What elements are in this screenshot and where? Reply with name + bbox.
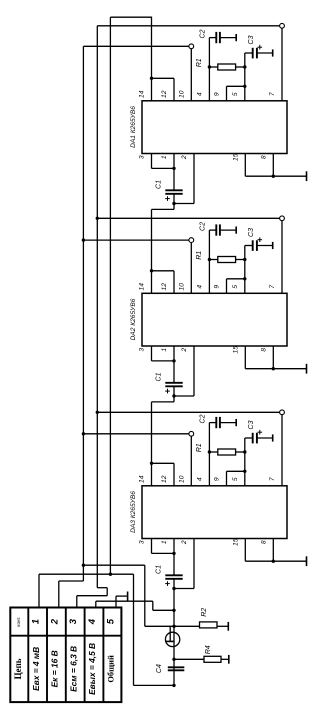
node pin5/pin9 junction stage 1: [243, 85, 246, 88]
ground bar at C3 stage 1: [272, 49, 274, 56]
wire output chain vertical (stage 3 output to C4): [173, 589, 175, 686]
wire pin 4 stub stage 1: [208, 67, 210, 101]
capacitor C1 (polarized) stage 1: [165, 189, 182, 191]
node Eвых branch: [172, 609, 175, 612]
svg-text:1: 1: [161, 348, 168, 352]
wire net Eк to pin 10 stage 1 (from bus corner): [83, 45, 188, 47]
node R1 right stage 3: [243, 450, 246, 453]
capacitor C1 (polarized) stage 2: [165, 382, 182, 384]
wire pin 12 stub stage 3: [173, 463, 175, 486]
capacitor C3 (polarized) stage 1: [252, 48, 254, 59]
wire pin 15 stub stage 1: [244, 154, 246, 177]
node pin 8 junction stage 2: [272, 367, 275, 370]
wire C2 right lead stage 3: [220, 422, 236, 424]
wire C3 right lead stage 1: [257, 52, 273, 54]
wire net Eсм: top jog from bus to pin 14 (stage 1): [110, 16, 151, 18]
svg-text:15: 15: [233, 538, 240, 546]
svg-text:R1: R1: [196, 58, 203, 67]
op-amp IC U1 box (DA1 К265УВ6): [142, 101, 287, 154]
wire pin 4 stub stage 3: [208, 452, 210, 486]
ground bar at R4: [228, 655, 230, 664]
node R1 left stage 3: [208, 450, 211, 453]
svg-text:C4: C4: [156, 664, 163, 673]
svg-text:10: 10: [179, 475, 186, 483]
wire net Eвх horizontal (connector pin 1 to C4): [39, 573, 134, 575]
wire C3 right lead stage 2: [257, 245, 273, 247]
connector table column line 3: [65, 608, 67, 703]
wire pin 12 stub stage 1: [173, 78, 175, 101]
svg-text:15: 15: [233, 346, 240, 354]
wire connector pin 5 to chassis: [115, 596, 117, 607]
terminal circle at pin 7 corner stage 2: [280, 216, 285, 221]
node junction pin14/pin12 stage 1: [150, 77, 153, 80]
wire R1 right lead stage 1: [236, 66, 245, 68]
op-amp IC U3 box (DA3 К265УВ6): [142, 486, 287, 539]
wire C3 left lead stage 2: [245, 245, 253, 247]
svg-text:DA1 К265УВ6: DA1 К265УВ6: [130, 106, 137, 148]
wire pin 15 stub stage 2: [244, 346, 246, 369]
wire pin 1 stub stage 3: [173, 539, 175, 576]
wire net Eк to pin 10 stage 3: [83, 433, 188, 435]
svg-text:Eк = 16 В: Eк = 16 В: [50, 650, 60, 687]
wire pin 1 stub stage 2: [173, 346, 175, 383]
plus sign of C3 stage 1: [258, 46, 263, 48]
node pin1/pin3 junction stage 2: [172, 359, 175, 362]
svg-text:5: 5: [232, 92, 239, 96]
wire C1 node to pin 2 stage 1: [174, 203, 194, 205]
svg-text:C2: C2: [200, 29, 207, 38]
node C1 bottom stage 1: [172, 202, 175, 205]
wire pin 9 stub stage 3: [226, 471, 228, 486]
resistor R1 stage 3: [218, 449, 236, 455]
svg-text:2: 2: [181, 348, 188, 353]
svg-text:конт.: конт.: [16, 616, 21, 626]
wire C1 node to pin 2 stage 2: [174, 395, 194, 397]
node C1 bottom stage 3: [172, 587, 175, 590]
wire pin 10 stub stage 3: [190, 436, 192, 485]
svg-text:9: 9: [214, 285, 221, 289]
svg-text:4: 4: [197, 92, 204, 96]
svg-text:3: 3: [68, 618, 79, 624]
svg-text:3: 3: [139, 540, 146, 544]
svg-text:C1: C1: [156, 565, 163, 574]
node R4 branch: [172, 658, 175, 661]
svg-text:7: 7: [269, 477, 276, 481]
terminal open circle at pin 10 line stage 3: [189, 431, 194, 436]
svg-text:4: 4: [197, 477, 204, 481]
svg-text:Eсм = 6,3 В: Eсм = 6,3 В: [68, 646, 78, 692]
wire C2 right lead stage 2: [220, 229, 236, 231]
svg-text:1: 1: [31, 619, 42, 624]
resistor R1 stage 1: [218, 64, 236, 70]
ground bar stage 3: [306, 556, 308, 566]
wire C3 branch vertical stage 2: [244, 246, 246, 260]
wire pin 2 stub stage 3: [193, 539, 195, 589]
svg-text:3: 3: [139, 155, 146, 159]
node bus tap supply stage 2: [96, 217, 99, 220]
svg-text:5: 5: [105, 618, 116, 624]
resistor R1 stage 2: [218, 257, 236, 263]
wire net Eсм supply to pin 7 stage 1: [97, 25, 279, 27]
ground bar stage 1: [306, 171, 308, 181]
wire jog pin14 to pin12 stage 2: [152, 270, 175, 272]
svg-text:2: 2: [181, 155, 188, 160]
wire C3 left lead stage 1: [245, 52, 253, 54]
resistor R2: [200, 622, 218, 628]
wire C2 left lead stage 3: [209, 422, 216, 424]
wire pin 3 stub stage 2: [151, 346, 153, 361]
capacitor C4: [168, 666, 185, 668]
bus net Eсм (vertical, to connector pin 3): [96, 26, 98, 588]
wire output staircase stage 2 to stage 3: [173, 396, 175, 402]
svg-text:14: 14: [139, 90, 146, 98]
svg-text:DA3 К265УВ6: DA3 К265УВ6: [130, 491, 137, 533]
svg-text:C3: C3: [248, 35, 255, 44]
wire pin 14 stub stage 2 (from previous stage output): [151, 209, 153, 293]
terminal open circle at pin 10 line stage 2: [189, 238, 194, 243]
wire pin 7 stub stage 3: [281, 415, 283, 486]
svg-text:7: 7: [269, 285, 276, 289]
wire pin 15 stub stage 3: [244, 539, 246, 562]
ground bar at C3 stage 3: [272, 434, 274, 441]
wire net Eвых staircase to connector pin 4: [153, 609, 174, 611]
wire supply to pin 7 stage 2: [97, 217, 279, 219]
svg-text:12: 12: [161, 283, 168, 291]
svg-text:Eвых = 4,5 В: Eвых = 4,5 В: [87, 643, 97, 695]
wire below C1 stage 3: [173, 579, 175, 589]
wire jog pin3 to pin1 stage 2: [152, 360, 175, 362]
node C1 bottom stage 2: [172, 394, 175, 397]
ground bar at R2: [227, 622, 229, 631]
wire pin 5 stub stage 1: [244, 67, 246, 101]
wire pin 5 stub stage 3: [244, 452, 246, 486]
wire pin 8 stub stage 1: [272, 154, 274, 177]
wire jog pin3 to pin1 stage 3: [152, 552, 175, 554]
svg-text:C3: C3: [248, 228, 255, 237]
wire jog pin9 stage 2: [227, 278, 245, 280]
jack contact bar: [166, 640, 175, 642]
svg-text:1: 1: [161, 540, 168, 544]
ground bar at C2 stage 3: [235, 419, 237, 426]
capacitor C2 stage 3: [215, 417, 217, 428]
svg-text:R4: R4: [205, 645, 212, 654]
wire C2 branch vertical stage 3: [208, 423, 210, 452]
node jack/R2 junction: [172, 625, 175, 628]
wire output staircase stage 1 to stage 2: [173, 204, 175, 210]
node bus tap for pin 10 stage 3: [82, 432, 85, 435]
wire pin 5 stub stage 2: [244, 260, 246, 294]
op-amp IC U2 box (DA2 К265УВ6): [142, 293, 287, 346]
svg-text:8: 8: [261, 348, 268, 352]
ground bar stage 2: [306, 364, 308, 374]
plus sign of C3 stage 3: [258, 431, 263, 433]
wire C1 node to pin 2 stage 3: [174, 588, 194, 590]
node bus tap for pin 10 stage 2: [82, 238, 85, 241]
wire pin 7 stub stage 2: [281, 221, 283, 293]
wire jog pin14 to pin12 stage 1: [152, 77, 175, 79]
wire C2 left lead stage 2: [209, 229, 216, 231]
node R1 right stage 1: [243, 65, 246, 68]
jack contact drop into socket: [169, 626, 171, 641]
wire jog pin9 stage 3: [227, 470, 245, 472]
svg-text:C1: C1: [156, 372, 163, 381]
node R1 left stage 1: [208, 65, 211, 68]
node bus tap supply stage 3: [96, 411, 99, 414]
wire C2 branch vertical stage 1: [208, 38, 210, 67]
connector terminal table outline: [10, 608, 121, 703]
svg-text:14: 14: [139, 283, 146, 291]
wire pin15/pin8 to ground stage 2: [245, 368, 306, 370]
wire C3 right lead stage 3: [257, 437, 273, 439]
node C4 bottom / input line junction: [172, 684, 175, 687]
wire R4 left lead: [174, 658, 204, 660]
svg-text:10: 10: [179, 90, 186, 98]
ground bar at C3 stage 2: [272, 242, 274, 249]
wire pin15/pin8 to ground stage 3: [245, 560, 306, 562]
svg-text:R1: R1: [196, 251, 203, 260]
bus net Eк (vertical, to connector pin 2): [82, 46, 84, 581]
wire supply to pin 7 stage 3: [97, 411, 279, 413]
capacitor C1 (polarized) stage 3: [165, 574, 182, 576]
node pin5/pin9 junction stage 3: [243, 470, 246, 473]
wire net Eк to pin 10 stage 2: [83, 239, 188, 241]
capacitor C2 stage 1: [215, 32, 217, 43]
node pin5/pin9 junction stage 2: [243, 277, 246, 280]
wire input line corner down to C4 bottom: [133, 574, 135, 685]
terminal circle at pin 7 corner stage 3: [280, 410, 285, 415]
wire below C1 stage 2: [173, 386, 175, 396]
wire pin 3 stub stage 3: [151, 539, 153, 554]
wire R2 right lead: [217, 625, 228, 627]
svg-text:9: 9: [214, 92, 221, 96]
wire pin 7 stub stage 1: [281, 28, 283, 100]
plus sign of C1 stage 2: [165, 390, 170, 392]
ground bar at C2 stage 2: [235, 227, 237, 234]
wire pin 1 stub stage 1: [173, 154, 175, 191]
plus sign of C1 stage 1: [165, 198, 170, 200]
svg-text:C3: C3: [248, 420, 255, 429]
svg-text:12: 12: [161, 90, 168, 98]
wire bus Eк bottom corner to connector pin 2: [59, 580, 84, 582]
capacitor C3 (polarized) stage 2: [252, 240, 254, 251]
svg-text:Общий: Общий: [107, 655, 116, 683]
capacitor C3 (polarized) stage 3: [252, 433, 254, 444]
wire R1 right lead stage 2: [236, 259, 245, 261]
wire pin 3 stub stage 1: [151, 154, 153, 169]
wire pin 2 stub stage 1: [193, 154, 195, 204]
node junction pin14/pin12 stage 3: [150, 462, 153, 465]
wire pin 9 stub stage 2: [226, 279, 228, 294]
node pin 8 junction stage 1: [272, 175, 275, 178]
wire R1 right lead stage 3: [236, 451, 245, 453]
wire net from bus Eк to output jack node: [82, 564, 85, 567]
svg-text:7: 7: [269, 92, 276, 96]
wire pin 14 stub stage 3 (from previous stage output): [151, 402, 153, 486]
resistor R4: [204, 656, 221, 662]
connector table row divider: [10, 635, 121, 637]
wire pin 10 stub stage 1: [190, 49, 192, 101]
node junction pin14/pin12 stage 2: [150, 269, 153, 272]
terminal circle at pin 7 corner stage 1: [280, 23, 285, 28]
wire pin 8 stub stage 2: [272, 346, 274, 369]
connector table column line 5: [102, 608, 104, 703]
svg-text:R2: R2: [201, 608, 208, 617]
wire pin 14 stub stage 1: [151, 17, 153, 101]
plus sign of C1 stage 3: [165, 583, 170, 585]
connector table column line 2: [46, 608, 48, 703]
wire connector pin 1 drop: [38, 574, 40, 607]
connector table column line 4: [84, 608, 86, 703]
wire pin 8 stub stage 3: [272, 539, 274, 562]
wire pin 10 stub stage 2: [190, 243, 192, 294]
wire jog pin9 stage 1: [227, 85, 245, 87]
svg-text:14: 14: [139, 475, 146, 483]
svg-text:DA2 К265УВ6: DA2 К265УВ6: [130, 298, 137, 340]
svg-text:C1: C1: [156, 180, 163, 189]
wire C3 branch vertical stage 1: [244, 53, 246, 67]
ground bar at C2 stage 1: [235, 34, 237, 41]
terminal open circle at pin 10 line stage 1: [189, 44, 194, 49]
wire pin15/pin8 to ground stage 1: [245, 175, 306, 177]
node pin 8 junction stage 3: [272, 560, 275, 563]
bus net Eвх (vertical, from connector pin 1 to stage 1 pin 14): [109, 17, 111, 574]
chassis ground bar at connector pin 5: [127, 592, 129, 601]
wire R2 left lead: [174, 625, 200, 627]
wire pin 9 stub stage 1: [226, 86, 228, 101]
connector table column line 1: [27, 608, 29, 703]
wire pin 4 stub stage 2: [208, 260, 210, 294]
wire bus Eсм staircase to connector pin 3: [97, 587, 107, 589]
svg-text:8: 8: [261, 540, 268, 544]
svg-text:4: 4: [197, 285, 204, 289]
svg-text:C2: C2: [200, 414, 207, 423]
svg-text:10: 10: [179, 283, 186, 291]
svg-text:R1: R1: [196, 443, 203, 452]
svg-text:8: 8: [261, 155, 268, 159]
svg-text:Eвх = 4 мВ: Eвх = 4 мВ: [31, 647, 41, 691]
svg-text:12: 12: [161, 475, 168, 483]
wire C3 left lead stage 3: [245, 437, 253, 439]
svg-text:2: 2: [181, 540, 188, 545]
node pin1/pin3 junction stage 1: [172, 167, 175, 170]
node R1 right stage 2: [243, 258, 246, 261]
plus sign of C3 stage 2: [258, 239, 263, 241]
svg-text:5: 5: [232, 285, 239, 289]
socket X1 circle: [165, 632, 179, 646]
svg-text:C2: C2: [200, 222, 207, 231]
capacitor C2 stage 2: [215, 224, 217, 235]
wire R1 left lead stage 1: [209, 66, 217, 68]
wire C2 right lead stage 1: [220, 37, 236, 39]
wire pin 2 stub stage 2: [193, 346, 195, 396]
svg-text:Цепь: Цепь: [13, 658, 23, 679]
svg-text:9: 9: [214, 477, 221, 481]
wire pin 12 stub stage 2: [173, 271, 175, 294]
wire C2 left lead stage 1: [209, 37, 216, 39]
node R1 left stage 2: [208, 258, 211, 261]
node pin1/pin3 junction stage 3: [172, 552, 175, 555]
svg-text:2: 2: [49, 618, 60, 625]
svg-text:1: 1: [161, 155, 168, 159]
wire C3 branch vertical stage 3: [244, 438, 246, 452]
svg-text:4: 4: [87, 618, 98, 625]
wire R1 left lead stage 2: [209, 259, 217, 261]
wire jog pin3 to pin1 stage 1: [152, 167, 175, 169]
wire jog pin14 to pin12 stage 3: [152, 462, 175, 464]
svg-text:3: 3: [139, 348, 146, 352]
wire C2 branch vertical stage 2: [208, 230, 210, 259]
node bus Eвх joins input line: [109, 573, 112, 576]
svg-text:5: 5: [232, 477, 239, 481]
svg-text:15: 15: [233, 153, 240, 161]
wire R4 right lead: [221, 658, 229, 660]
wire R1 left lead stage 3: [209, 451, 217, 453]
wire below C1 stage 1: [173, 194, 175, 204]
